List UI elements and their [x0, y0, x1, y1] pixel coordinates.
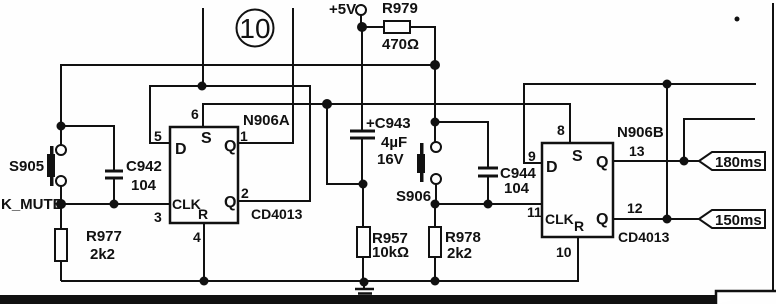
svg-text:K_MUTE: K_MUTE — [1, 196, 63, 213]
junction node D1 loop — [198, 82, 207, 91]
svg-text:4: 4 — [193, 229, 201, 245]
wire C942 top riser — [61, 126, 114, 170]
svg-text:+5V: +5V — [329, 1, 356, 18]
capacitor C943 plates — [350, 131, 375, 138]
junction node S906/C944 — [431, 118, 440, 127]
svg-text:R979: R979 — [382, 0, 418, 17]
wire ground stub — [363, 281, 365, 288]
wire C942 bottom stub — [113, 179, 115, 204]
wire Q2bar vertical to D2 bus — [666, 84, 668, 219]
white corner box bottom right — [716, 291, 776, 304]
svg-text:10kΩ: 10kΩ — [372, 244, 409, 261]
wire R957 bottom lead — [362, 257, 364, 281]
svg-text:2k2: 2k2 — [447, 245, 472, 262]
wire R978 bottom lead — [434, 257, 436, 281]
IC N906A flip-flop box U1 — [170, 127, 238, 223]
junction node Q2bar/150ms — [663, 215, 672, 224]
wire S-bus branch down to C943 bottom node — [327, 104, 362, 184]
switch S905 contacts — [56, 145, 66, 155]
svg-text:470Ω: 470Ω — [382, 36, 419, 53]
speck dot top right — [735, 17, 740, 22]
junction node C944 bottom — [484, 200, 493, 209]
wire S906 node to CLK2 — [435, 203, 542, 205]
wire D1 loop pin5 to pin2 — [150, 86, 310, 201]
svg-text:4µF: 4µF — [381, 134, 407, 151]
svg-text:12: 12 — [627, 200, 643, 216]
right edge border line — [772, 3, 774, 290]
wire R977 top lead — [60, 204, 62, 229]
switch S905 button bar — [50, 146, 54, 186]
junction node R978 ground — [431, 277, 440, 286]
wire Q2bar pin12 to 150ms flag — [613, 218, 699, 220]
svg-text:11: 11 — [527, 204, 542, 220]
junction node +5V/R979 — [357, 22, 367, 32]
svg-text:CD4013: CD4013 — [251, 206, 303, 222]
svg-text:R: R — [198, 206, 208, 222]
junction node R979 out — [430, 60, 440, 70]
wire S905 bottom stub — [60, 186, 62, 204]
svg-text:5: 5 — [154, 128, 162, 144]
svg-text:13: 13 — [629, 143, 645, 159]
junction node D2 bus — [663, 80, 672, 89]
svg-text:104: 104 — [131, 177, 157, 194]
wire K_MUTE/R979 top rail y=65 — [61, 65, 435, 126]
capacitor C944 plates — [478, 168, 498, 176]
junction node S-bus — [322, 99, 332, 109]
wire S905 top stub — [60, 126, 62, 145]
svg-text:R: R — [574, 218, 584, 234]
svg-text:104: 104 — [504, 180, 530, 197]
svg-text:S: S — [572, 148, 583, 165]
svg-text:R977: R977 — [86, 228, 122, 245]
bottom black band — [0, 295, 717, 304]
svg-text:150ms: 150ms — [715, 212, 762, 229]
svg-text:C942: C942 — [126, 158, 162, 175]
junction node S906 bottom — [431, 200, 440, 209]
junction node S905 bottom — [56, 199, 66, 209]
svg-text:R978: R978 — [445, 229, 481, 246]
wire top edge to D1 node — [202, 8, 204, 86]
flag 180ms — [699, 152, 765, 170]
svg-text:CLK: CLK — [172, 196, 201, 212]
switch S906 contacts — [431, 142, 441, 152]
resistor R977 — [55, 229, 67, 261]
svg-text:CD4013: CD4013 — [618, 229, 670, 245]
resistor R978 — [429, 227, 441, 257]
svg-text:N906B: N906B — [617, 124, 664, 141]
svg-text:Q: Q — [596, 154, 608, 171]
wire S906 bottom stub — [435, 184, 437, 204]
wire C944 bottom stub — [487, 177, 489, 204]
svg-text:2: 2 — [241, 185, 249, 201]
switch S906 button bar — [420, 143, 424, 182]
wire C943 bottom to node — [361, 139, 363, 184]
circled sheet number 10 — [237, 10, 274, 47]
svg-text:3: 3 — [154, 209, 162, 225]
IC N906B flip-flop box U2 — [542, 143, 613, 237]
svg-text:Q: Q — [596, 211, 608, 228]
junction node C942 bottom — [110, 200, 119, 209]
wire K_MUTE to CLK1 — [61, 203, 170, 205]
terminal +5V — [356, 5, 366, 15]
svg-text:S906: S906 — [396, 188, 431, 205]
resistor R957 — [357, 227, 370, 257]
junction node C943/R957 — [359, 180, 368, 189]
wire +5V rail down to C943 — [361, 27, 363, 130]
svg-text:180ms: 180ms — [715, 154, 762, 171]
svg-text:S: S — [201, 130, 212, 147]
wire R979 right lead down to node — [410, 27, 435, 65]
wire R979 node down to S906 — [434, 65, 436, 142]
svg-text:1: 1 — [240, 128, 248, 144]
svg-text:D: D — [546, 159, 558, 176]
junction node R957 ground — [360, 278, 369, 287]
svg-text:9: 9 — [528, 148, 536, 164]
wire Q2 pin13 to 180ms flag — [613, 160, 699, 162]
wire R1 pin4 to ground bus — [203, 223, 205, 281]
capacitor C942 plates — [105, 171, 123, 178]
wire Q1 pin1 riser to top edge — [238, 8, 293, 143]
svg-text:6: 6 — [191, 106, 199, 122]
wire 180ms riser to right — [684, 119, 755, 161]
wire R979 left lead — [361, 26, 384, 28]
junction node pin4 ground — [200, 277, 209, 286]
svg-text:10: 10 — [556, 244, 572, 260]
wire +5V stub — [360, 15, 362, 27]
wire S-bus pin6 to pin8 — [203, 104, 570, 143]
junction node Q2/180ms — [680, 157, 689, 166]
svg-text:Q: Q — [224, 194, 236, 211]
ground symbol — [355, 289, 374, 297]
junction node S905 top — [57, 122, 66, 131]
svg-text:Q: Q — [224, 138, 236, 155]
svg-text:10: 10 — [239, 13, 270, 44]
wire C944 top branch — [435, 122, 488, 167]
resistor R979 — [384, 21, 410, 33]
svg-text:CLK: CLK — [545, 211, 574, 227]
svg-text:S905: S905 — [9, 158, 44, 175]
svg-text:D: D — [175, 141, 187, 158]
svg-text:2k2: 2k2 — [90, 246, 115, 263]
svg-text:N906A: N906A — [243, 112, 290, 129]
wire R977 bottom lead — [60, 261, 62, 281]
wire R978 top lead — [434, 204, 436, 227]
wire ground bus — [61, 237, 578, 281]
svg-text:+C943: +C943 — [366, 115, 411, 132]
svg-text:8: 8 — [557, 122, 565, 138]
wire D2 bus pin9 — [524, 84, 756, 163]
flag 150ms — [699, 210, 765, 228]
svg-text:16V: 16V — [377, 151, 404, 168]
wire R957 top lead — [362, 184, 364, 227]
